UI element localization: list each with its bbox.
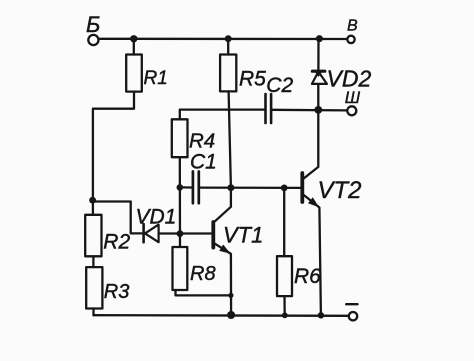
diode VD1 xyxy=(136,205,177,242)
wire bottom rail xyxy=(94,314,349,317)
node R5 top junction xyxy=(225,35,232,42)
svg-text:R1: R1 xyxy=(144,68,168,89)
node C1 left junction xyxy=(177,184,184,191)
node VT2 emitter on bottom rail xyxy=(318,312,324,318)
wire R6 bottom stub xyxy=(283,296,286,315)
resistor R1 xyxy=(126,55,168,92)
wire R5 bottom crossing Ш rail to VT1 collector node xyxy=(229,91,231,187)
node R8-emitter junction xyxy=(228,293,233,298)
wire VD1 to VT1 base xyxy=(159,232,212,234)
node VT1 emitter on bottom rail xyxy=(227,311,235,319)
wire R1 bottom to left column xyxy=(93,92,134,215)
svg-text:VD1: VD1 xyxy=(136,205,177,228)
node R1 top junction xyxy=(130,35,137,42)
wire R3 bottom stub xyxy=(92,309,94,316)
resistor R4 xyxy=(172,119,215,157)
wire R4 top to Ш rail left segment xyxy=(180,110,264,120)
svg-text:R5: R5 xyxy=(239,68,266,91)
wire R4 bottom through C1 node down to R8 top xyxy=(179,157,181,247)
node R6 bottom on rail xyxy=(282,312,288,318)
resistor R2 xyxy=(85,215,130,256)
wire Ш rail right segment xyxy=(272,109,346,112)
resistor R5 xyxy=(220,55,266,92)
svg-text:R2: R2 xyxy=(103,231,130,254)
resistor R8 xyxy=(173,247,216,290)
wire R2 to R3 xyxy=(92,256,94,267)
svg-text:C1: C1 xyxy=(190,151,217,174)
wire left junction to VD1 anode xyxy=(93,202,142,234)
terminal Б xyxy=(86,12,100,45)
node left column junction xyxy=(89,197,96,204)
wire R8 bottom to VT1 emitter line xyxy=(176,290,231,295)
diode VD2 xyxy=(312,39,372,107)
resistor R6 xyxy=(277,256,321,296)
transistor VT2 xyxy=(302,110,361,315)
node VT1 collector junction xyxy=(227,184,234,191)
svg-text:R3: R3 xyxy=(104,281,130,303)
terminal minus xyxy=(346,304,357,320)
node R6 top junction xyxy=(281,185,288,192)
capacitor C1 xyxy=(190,151,217,204)
node VD2 bottom junction xyxy=(314,106,322,114)
svg-text:C2: C2 xyxy=(266,74,293,97)
wire C1 right to VT2 base xyxy=(200,186,301,189)
svg-text:Б: Б xyxy=(86,12,100,37)
svg-text:VT2: VT2 xyxy=(318,177,362,204)
wire R5 top stub xyxy=(227,39,229,55)
wire top rail Б to В xyxy=(99,38,347,41)
terminal Ш xyxy=(345,88,361,115)
svg-text:В: В xyxy=(347,18,358,35)
capacitor C2 xyxy=(266,74,294,123)
svg-text:R6: R6 xyxy=(294,265,321,288)
node VD1-R4-R8 junction xyxy=(177,230,184,237)
svg-text:VD2: VD2 xyxy=(327,66,372,92)
transistor VT1 xyxy=(213,188,263,316)
svg-text:R4: R4 xyxy=(189,130,215,153)
wire R6 top stub xyxy=(283,188,285,256)
terminal В xyxy=(347,18,358,44)
node VD2 top junction xyxy=(316,35,323,42)
wire R1 top stub xyxy=(133,39,135,55)
wire C1 left stub xyxy=(180,186,192,188)
resistor R3 xyxy=(86,267,129,308)
svg-text:R8: R8 xyxy=(190,263,216,285)
svg-text:VT1: VT1 xyxy=(223,222,263,247)
